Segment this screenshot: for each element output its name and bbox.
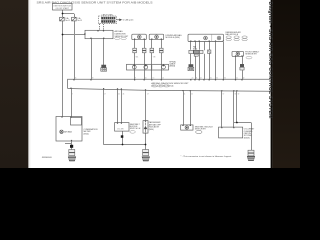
box T connector ovals bbox=[115, 37, 127, 39]
svg-text:27: 27 bbox=[147, 93, 149, 95]
svg-text:* : This connector is not show: * : This connector is not shown in Harne… bbox=[181, 155, 232, 158]
svg-text:58: 58 bbox=[235, 93, 237, 95]
wire module M2 pin a bbox=[151, 40, 153, 49]
sensor unit box T bbox=[85, 30, 113, 38]
fuse F2 bbox=[72, 17, 77, 21]
junction ground bus right bbox=[145, 144, 147, 146]
svg-text:CAN-H CAN-L: CAN-H CAN-L bbox=[102, 13, 114, 16]
svg-text:Y/B: Y/B bbox=[153, 57, 156, 59]
spiral cable square bbox=[208, 50, 211, 53]
connector pair squib R bbox=[240, 64, 244, 70]
page right border line bbox=[271, 0, 273, 168]
box B ground connector block bbox=[121, 135, 124, 138]
CAN dashed box bbox=[99, 16, 117, 30]
wire top right box pin b bbox=[223, 42, 225, 79]
svg-text:10: 10 bbox=[145, 78, 147, 80]
junction ignition bus bbox=[62, 13, 64, 15]
wire wide box pin 3b bbox=[204, 42, 206, 51]
spiral cable connector cluster bbox=[189, 50, 203, 56]
svg-text:SENSOR RH: SENSOR RH bbox=[245, 54, 257, 56]
svg-text:36: 36 bbox=[224, 78, 226, 80]
connector pair M2b bbox=[160, 48, 164, 53]
pin tick marks on box edges bbox=[61, 30, 242, 141]
svg-text:W/L: W/L bbox=[136, 57, 139, 59]
spiral cable box bbox=[127, 64, 169, 70]
wire box D pin b bbox=[233, 91, 235, 127]
wire main unit to combination meter bbox=[71, 89, 73, 117]
svg-text:29: 29 bbox=[92, 78, 94, 80]
wire box C feed bbox=[145, 90, 147, 120]
svg-text:59: 59 bbox=[238, 93, 240, 95]
svg-text:JRWWE0630GB: JRWWE0630GB bbox=[42, 157, 52, 159]
box D occupant sensor bbox=[219, 127, 243, 138]
fuse F1 bbox=[60, 17, 65, 21]
wire ignition feed down bbox=[62, 10, 64, 14]
warning lamp bbox=[60, 130, 63, 133]
ground bus wire bbox=[104, 144, 146, 146]
wire box T pin 1 down bbox=[91, 39, 93, 80]
wire top right box pin a bbox=[215, 42, 217, 79]
wire wide box pin 3 bbox=[199, 42, 201, 50]
svg-text:AIR BAG DIAGNOSIS SENSOR UNIT: AIR BAG DIAGNOSIS SENSOR UNIT bbox=[151, 82, 189, 85]
svg-text:(B208): (B208) bbox=[244, 137, 250, 139]
svg-text:(M303): (M303) bbox=[169, 66, 175, 68]
wire wide box pin 2 bbox=[195, 42, 197, 50]
svg-text:14: 14 bbox=[162, 78, 164, 80]
CAN bar H bbox=[102, 17, 116, 19]
meter inner box bbox=[71, 118, 82, 126]
seat belt box B bbox=[115, 123, 129, 132]
wire bus to ground bbox=[145, 145, 147, 150]
svg-text:ON OR START: ON OR START bbox=[55, 7, 69, 10]
squib box R bbox=[232, 51, 244, 56]
ignition switch box bbox=[53, 4, 73, 11]
svg-text:(M90): (M90) bbox=[149, 129, 154, 131]
svg-text:22: 22 bbox=[200, 78, 202, 80]
svg-text:Diagram - SRS AIR BAG CONTROL: Diagram - SRS AIR BAG CONTROL SYSTEM bbox=[267, 2, 273, 119]
indicator box C bbox=[143, 121, 148, 134]
spare connector stack below wide box bbox=[188, 65, 194, 71]
wide module box W bbox=[188, 34, 224, 41]
ground symbol meter bbox=[68, 157, 75, 161]
module M2 bbox=[149, 34, 164, 39]
junction branch to box T bbox=[62, 34, 64, 36]
svg-text:35: 35 bbox=[216, 78, 218, 80]
svg-text:21: 21 bbox=[196, 78, 198, 80]
wire squib R pin a bbox=[235, 56, 237, 79]
wire box B pin b bbox=[121, 89, 123, 122]
ground symbol mid bbox=[142, 157, 149, 161]
svg-text:45: 45 bbox=[118, 93, 120, 95]
buckle oval bbox=[196, 130, 202, 133]
module M1 bbox=[132, 34, 147, 39]
svg-text:(M31): (M31) bbox=[193, 49, 198, 51]
top right ovals bbox=[226, 36, 247, 41]
connector pair M1b bbox=[142, 48, 146, 53]
wire box T pin 2 to spare connector bbox=[103, 39, 105, 65]
wire module M1 pin b bbox=[144, 40, 146, 49]
right ground connector pair bbox=[248, 150, 254, 156]
svg-text:SWITCH LH: SWITCH LH bbox=[130, 128, 141, 130]
svg-text:17: 17 bbox=[104, 93, 106, 95]
svg-text:MODULE (M30): MODULE (M30) bbox=[166, 37, 181, 39]
svg-text:No.12: No.12 bbox=[65, 20, 70, 22]
wire fuse top bus bbox=[62, 13, 74, 15]
wire main unit ground leg bbox=[103, 89, 105, 145]
connector pair M1a bbox=[133, 48, 137, 53]
buckle switch bbox=[181, 125, 193, 130]
wire branch to sensor unit box bbox=[62, 34, 85, 36]
svg-text:20: 20 bbox=[192, 78, 194, 80]
wire fuse1 to combination meter bbox=[62, 21, 64, 117]
connector pair M2a bbox=[150, 48, 154, 53]
wire box B ground bbox=[122, 131, 124, 145]
meter ground connector pair bbox=[69, 150, 75, 156]
left dark bar bbox=[0, 0, 28, 168]
wire box C to bus bbox=[145, 133, 147, 145]
svg-text:No.15: No.15 bbox=[77, 20, 82, 22]
wire wide box pin 1 bbox=[190, 42, 192, 50]
svg-text:42: 42 bbox=[243, 78, 245, 80]
meter ground tick bbox=[65, 143, 72, 145]
wire ground branch horizontal bbox=[234, 122, 251, 124]
svg-text:41: 41 bbox=[236, 78, 238, 80]
junction ground bus left bbox=[122, 144, 124, 146]
combination meter box bbox=[56, 117, 82, 142]
CAN dashed drop 2 bbox=[103, 24, 105, 31]
CAN dashed drop 1 bbox=[99, 24, 101, 31]
wire wide box pin 4 bbox=[209, 42, 211, 51]
svg-text:46: 46 bbox=[123, 93, 125, 95]
svg-text:51: 51 bbox=[184, 93, 186, 95]
svg-text:(M24): (M24) bbox=[84, 134, 90, 136]
svg-text:57: 57 bbox=[223, 93, 225, 95]
wire to fuse 2 bbox=[74, 14, 76, 17]
wire module M1 pin a bbox=[134, 40, 136, 49]
wire to fuse 1 bbox=[62, 14, 64, 17]
wire squib R pin b via connector bbox=[242, 56, 244, 64]
CAN arrow bbox=[117, 19, 123, 22]
meter ground connector block bbox=[70, 145, 73, 148]
svg-text:25: 25 bbox=[75, 78, 77, 80]
wire ground branch vertical bbox=[236, 91, 238, 122]
junction right ground branch bbox=[236, 122, 238, 124]
wire box B pin a bbox=[117, 89, 119, 122]
svg-text:OCC SW: OCC SW bbox=[117, 128, 124, 130]
long main unit box bbox=[68, 79, 270, 91]
ground symbol right bbox=[247, 156, 254, 160]
svg-text:(M152) (M153) (M154): (M152) (M153) (M154) bbox=[151, 86, 173, 88]
wire buckle switch pin b bbox=[190, 91, 192, 125]
mid ground connector pair bbox=[143, 150, 149, 156]
svg-text:9: 9 bbox=[135, 78, 136, 80]
right dark bar bbox=[272, 0, 300, 168]
wire right ground drop bbox=[251, 123, 253, 151]
wire meter ground drop bbox=[71, 141, 73, 150]
wire buckle switch pin a bbox=[183, 91, 185, 125]
svg-text:31: 31 bbox=[210, 78, 212, 80]
svg-text:AIR BAG: AIR BAG bbox=[64, 131, 72, 134]
wire module M2 pin b bbox=[161, 40, 163, 49]
svg-text:13: 13 bbox=[153, 78, 155, 80]
spare connector stack below box T bbox=[101, 65, 107, 71]
wire box D pin a bbox=[221, 91, 223, 127]
page left edge line bbox=[29, 0, 31, 168]
CAN bar L bbox=[102, 21, 116, 23]
svg-text:52: 52 bbox=[191, 93, 193, 95]
wire fuse2 down to main unit bbox=[74, 21, 76, 79]
svg-text:To CAN system: To CAN system bbox=[123, 19, 134, 22]
